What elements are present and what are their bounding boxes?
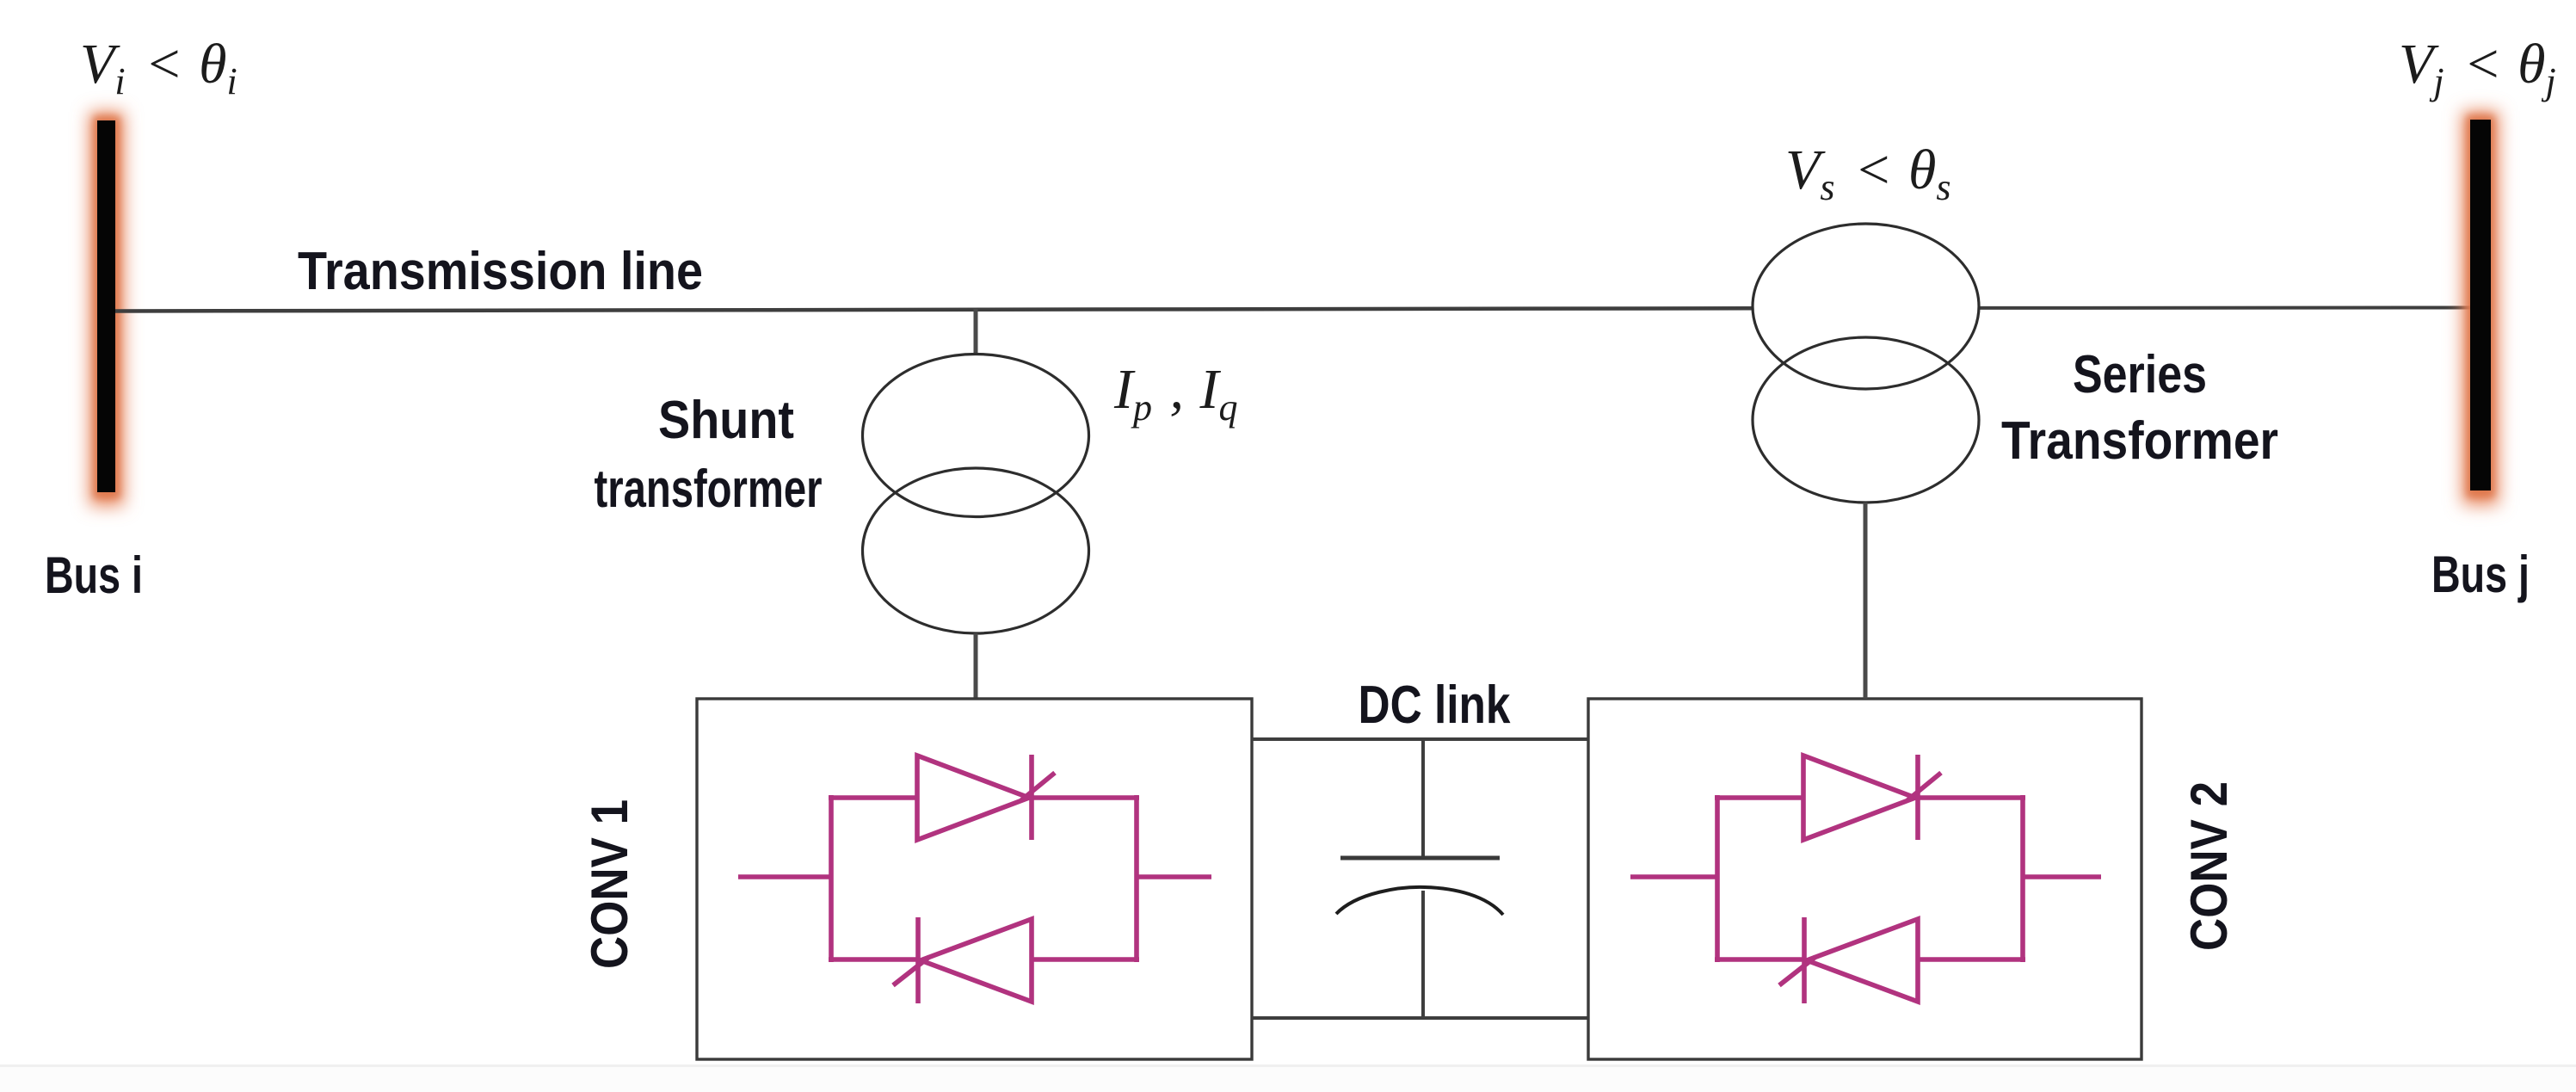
converter box CONV 2	[1588, 699, 2142, 1059]
bus bar Bus i	[89, 112, 124, 506]
wire DC link top rail	[1252, 737, 1588, 741]
wire series transformer down to CONV 2 box	[1864, 503, 1868, 699]
svg-text:Transformer: Transformer	[2001, 411, 2278, 471]
thyristor Q1 (CONV 1 upper, pointing right)	[917, 755, 1055, 840]
svg-text:CONV 2: CONV 2	[2180, 781, 2238, 951]
wire shunt branch from transmission line down to shunt transformer	[974, 309, 978, 356]
svg-text:Bus j: Bus j	[2431, 546, 2530, 603]
svg-text:transformer: transformer	[595, 460, 823, 519]
svg-text:Vj < θj: Vj < θj	[2399, 33, 2556, 102]
label Shunt transformer	[595, 391, 823, 519]
svg-text:Bus i: Bus i	[45, 546, 143, 604]
thyristor Q2 (CONV 1 lower, pointing left)	[893, 917, 1032, 1003]
thyristor Q4 (CONV 2 lower, pointing left)	[1779, 917, 1918, 1003]
wire DC link bottom rail	[1252, 1016, 1588, 1020]
series transformer	[1753, 224, 1979, 503]
svg-text:CONV 1: CONV 1	[581, 799, 638, 969]
wire CONV 1 thyristor loop rails and leads	[738, 795, 1211, 962]
wire shunt transformer to CONV 1 box	[974, 633, 978, 699]
shunt transformer	[863, 355, 1089, 634]
svg-text:Shunt: Shunt	[658, 391, 794, 450]
converter box CONV 1	[697, 699, 1252, 1059]
svg-text:Vi < θi: Vi < θi	[80, 33, 237, 102]
capacitor C1 (DC link capacitor)	[1336, 739, 1503, 1018]
wire transmission line from Bus i to series transformer	[115, 308, 1869, 312]
thyristor Q3 (CONV 2 upper, pointing right)	[1803, 755, 1941, 840]
wire CONV 2 thyristor loop rails and leads	[1630, 795, 2101, 962]
svg-text:Vs < θs: Vs < θs	[1785, 139, 1951, 208]
wire transmission line from series transformer to Bus j	[1863, 306, 2471, 311]
svg-text:Transmission line: Transmission line	[298, 242, 703, 301]
svg-text:Series: Series	[2073, 345, 2207, 404]
bus bar Bus j	[2462, 111, 2499, 505]
svg-text:DC link: DC link	[1359, 676, 1511, 735]
label Series Transformer	[2001, 345, 2278, 471]
